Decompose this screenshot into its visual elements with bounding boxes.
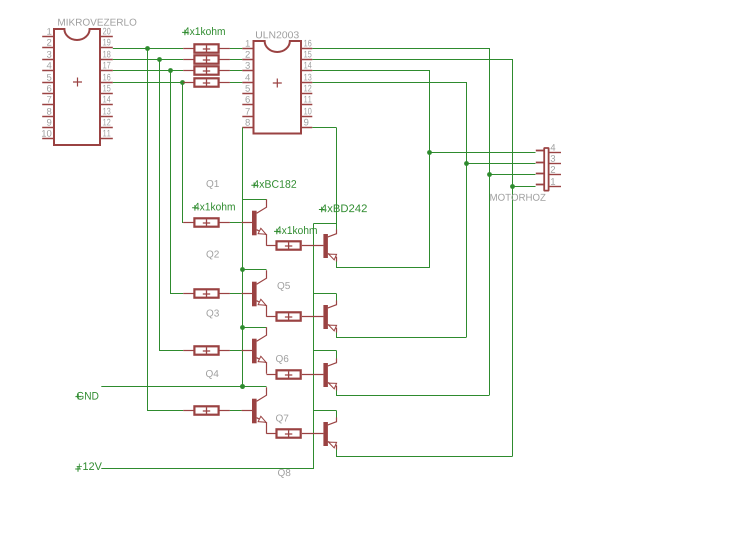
label Q1 [206,180,218,189]
transistor Q3 bar [252,339,257,364]
transistor Q3 emitter lead [257,358,267,374]
wire Q2 emitter to RE2 [267,316,277,318]
wire vertical column V4 [147,49,149,411]
IC U2 right pins 16-9 [301,48,312,50]
resistor RB2 1kohm [194,289,218,297]
label 4x1kohm base-row [194,202,235,210]
label Q6 [276,355,288,364]
junction MOTORHOZ tie [487,172,492,177]
IC U1 MIKROVEZERLO body [54,29,100,145]
label 4x1kohm emitter-row [276,226,317,234]
IC U1 left pins 1-10 [42,36,54,38]
label Q3 [206,310,218,319]
resistor RB4 lead left [183,410,194,412]
resistor RB2 lead right [219,293,230,295]
wire vertical drop x=466.1 [466,83,468,338]
wire RN2 to ULN pin2 [230,59,242,61]
wire net N4 MIK pin16 to RN4 [113,82,183,84]
wire vertical column V3 [159,60,161,351]
resistor RN2 lead right [219,59,230,61]
wire V4 to RB4 [147,410,183,412]
label Q5 [277,282,289,291]
wire V1 to RB1 [182,222,183,224]
label +12V [77,462,102,470]
resistor RN2 lead left [183,59,194,61]
transistor Q8 emitter arrow [327,439,336,447]
resistor RB3 lead right [219,350,230,352]
transistor Q1 bar [252,211,257,236]
resistor RN3 1kohm [194,66,218,74]
wire RN1 to ULN pin1 [230,48,242,50]
transistor Q4 bar [252,399,257,424]
wire net N3 MIK pin17 to RN3 [113,70,183,72]
transistor Q8 bar [323,422,328,446]
wire RB4 to Q4 base [230,410,242,412]
wire Q1 collector branch [242,199,267,201]
transistor Q7 emitter arrow [327,380,336,388]
wire vertical drop x=489.0 [489,49,491,396]
wire ULN pin9 down [336,128,338,224]
resistor RE1 1kohm [277,241,301,249]
transistor Q1 collector lead [257,199,267,213]
junction Q4 collector [240,384,245,389]
resistor RB1 1kohm [194,218,218,226]
transistor Q2 BC182 base lead [242,293,252,295]
transistor Q7 BD242 base lead [302,374,324,376]
transistor Q2 emitter lead [257,301,267,317]
label GND [77,392,99,400]
wire RB2 to Q2 base [230,293,242,295]
resistor RN4 1kohm [194,78,218,86]
wire Q7 emitter down [336,391,338,396]
transistor Q2 collector lead [257,270,267,284]
IC U2 ULN2003 body [254,41,302,134]
wire Q8 emitter run [336,456,512,458]
resistor RB3 lead left [183,350,194,352]
resistor RN1 lead right [219,48,230,50]
wire RN3 to ULN pin3 [230,70,242,72]
transistor Q3 collector lead [257,327,267,341]
label 4x1kohm top [184,27,225,35]
resistor RB2 lead left [183,293,194,295]
IC U1 origin cross [73,78,82,87]
resistor RN3 lead right [219,70,230,72]
wire to MOTORHOZ pin3 [466,163,536,165]
origin cross 4xBD242 [319,207,325,213]
resistor RB4 lead right [219,410,230,412]
origin cross GND [75,394,81,400]
connector J1 MOTORHOZ bar [544,148,548,191]
transistor Q1 BC182 base lead [242,222,252,224]
label 4xBD242 [321,204,367,212]
wire Q7 collector branch [313,350,336,352]
transistor Q6 emitter lead [328,325,337,333]
U1 right pin numbers [103,28,111,35]
label MOTORHOZ [490,194,545,201]
wire Q8 collector riser [336,411,338,418]
wire Q4 collector branch [242,386,267,388]
wire RN4 to ULN pin4 [230,82,242,84]
transistor Q8 collector lead [328,418,337,425]
wire Q7 collector riser [336,351,338,359]
transistor Q6 collector lead [328,301,337,308]
wire Q4 emitter to RE4 [267,433,277,435]
wire RB3 to Q3 base [230,350,242,352]
connector J1 contacts [536,150,544,152]
wire pin9 jog left [314,223,337,225]
IC U2 origin cross [273,79,282,88]
origin cross emitter-row label [274,229,280,235]
junction node N2 [157,57,162,62]
junction node N4 [180,80,185,85]
transistor Q4 emitter lead [257,418,267,434]
wire +12V [101,468,314,470]
junction node N3 [168,68,173,73]
transistor Q1 emitter arrow [258,228,267,237]
U2 left pin numbers [246,40,250,47]
connector J1 pins right [549,152,561,154]
wire vertical column V2 [170,71,172,294]
resistor RE4 1kohm [277,429,301,437]
wire to MOTORHOZ pin2 [489,174,536,176]
transistor Q2 emitter arrow [258,299,267,308]
U2 right pin numbers [304,40,311,47]
resistor RB4 1kohm [194,406,218,414]
wire Q8 emitter down [336,450,338,457]
transistor Q4 collector lead [257,387,267,401]
wire Q5 emitter run [336,267,430,269]
transistor Q5 BD242 base lead [302,245,324,247]
wire ULN pin8 down [242,128,244,387]
wire Q6 collector branch [313,293,336,295]
resistor RN2 1kohm [194,55,218,63]
wire ULN pin16 out [312,48,490,50]
transistor Q1 emitter lead [257,230,267,246]
resistor RB1 lead right [219,222,230,224]
wire net N1 MIK pin19 to RN1 [113,48,183,50]
resistor RE2 1kohm [277,312,301,320]
wire Q2 collector branch [242,269,267,271]
origin cross base-row label [192,205,198,211]
resistor RN1 lead left [183,48,194,50]
resistor RN1 1kohm [194,44,218,52]
label Q2 [206,251,218,260]
wire Q6 emitter down [336,333,338,338]
transistor Q5 emitter lead [328,254,337,262]
wire Q7 emitter run [336,395,489,397]
wire vertical drop x=512.4 [512,60,514,457]
transistor Q3 emitter arrow [258,356,267,365]
wire Q5 emitter down [336,262,338,268]
wire Q6 collector riser [336,294,338,301]
resistor RB3 1kohm [194,346,218,354]
transistor Q6 emitter arrow [327,322,336,330]
junction MOTORHOZ tie [510,184,515,189]
transistor Q4 BC182 base lead [242,410,252,412]
junction MOTORHOZ tie [427,150,432,155]
wire Q1 emitter to RE1 [267,245,277,247]
wire ULN pin13 out [312,82,467,84]
resistor RN3 lead left [183,70,194,72]
wire V3 to RB3 [159,350,183,352]
label ULN2003 [256,31,299,38]
transistor Q5 bar [323,234,328,258]
wire vertical drop x=429.9 [429,71,431,268]
wire Q5 collector riser [336,224,338,230]
junction node N1 [145,46,150,51]
transistor Q5 collector lead [328,230,337,237]
wire Q3 collector branch [242,327,267,329]
transistor Q5 emitter arrow [327,251,336,259]
wire Q6 emitter run [336,337,466,339]
resistor RN4 lead right [219,82,230,84]
transistor Q8 BD242 base lead [302,433,324,435]
wire ULN pin15 out [312,59,513,61]
IC U1 right pins 20-11 [100,36,113,38]
wire ULN pin9 right [312,127,336,129]
wire to MOTORHOZ pin1 [512,186,536,188]
transistor Q6 bar [323,305,328,329]
transistor Q7 emitter lead [328,383,337,391]
transistor Q4 emitter arrow [258,416,267,425]
junction Q2 collector [240,267,245,272]
resistor RN4 lead left [183,82,194,84]
label MIKROVEZERLO [58,19,136,26]
U1 left pin numbers [47,28,51,35]
wire V2 to RB2 [170,293,183,295]
transistor Q3 BC182 base lead [242,350,252,352]
label Q8 [278,469,290,478]
wire Q3 emitter to RE3 [267,374,277,376]
wire Q8 collector branch [313,410,336,412]
origin cross 4xBC182 [251,182,257,188]
junction MOTORHOZ tie [464,161,469,166]
transistor Q2 bar [252,282,257,307]
wire to MOTORHOZ pin4 [429,152,536,154]
label Q7 [276,415,288,424]
resistor RB1 lead left [183,222,194,224]
transistor Q8 emitter lead [328,442,337,450]
wire ULN pin14 out [312,70,430,72]
resistor RE3 1kohm [277,370,301,378]
wire +12V vertical [313,224,315,469]
origin cross +12V [75,466,81,472]
IC U2 left pins 1-8 [242,48,253,50]
transistor Q7 collector lead [328,359,337,366]
wire vertical column V1 [182,83,184,223]
label 4xBC182 [254,180,297,188]
J1 pin numbers [551,144,556,151]
label Q4 [206,370,219,379]
wire RB1 to Q1 base [230,222,242,224]
transistor Q6 BD242 base lead [302,316,324,318]
origin cross 4x1kohm top [182,30,188,36]
junction GND node [240,384,245,389]
junction Q3 collector [240,325,245,330]
transistor Q7 bar [323,363,328,387]
wire net N2 MIK pin18 to RN2 [113,59,183,61]
wire GND [101,386,243,388]
